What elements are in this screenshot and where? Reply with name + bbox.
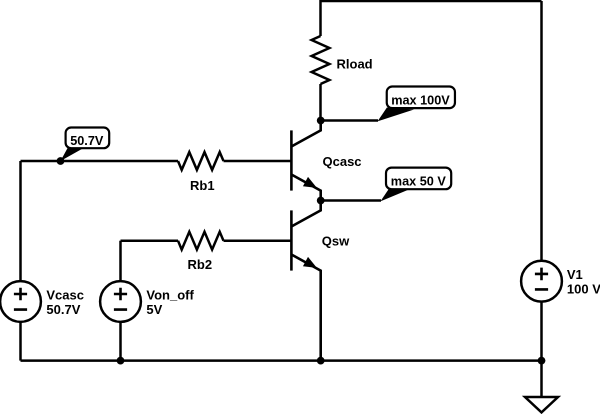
wire Rb1 right lead to Qcasc base — [224, 160, 291, 163]
svg-text:Rb2: Rb2 — [188, 257, 213, 272]
node Qsw emitter at bottom rail (junction dot) — [317, 357, 325, 365]
callout 50.7V — [61, 128, 110, 162]
resistor Rb2 — [178, 232, 224, 250]
svg-text:Von_off: Von_off — [146, 288, 194, 303]
svg-text:100 V: 100 V — [567, 281, 600, 296]
wire Von_off bottom lead — [119, 322, 122, 361]
wire top rail — [321, 1, 542, 36]
node Von_off at bottom rail (junction dot) — [117, 357, 125, 365]
wire Rb1 left lead — [21, 160, 179, 163]
node emitter Qcasc / collector Qsw (junction dot) — [317, 197, 325, 205]
resistor Rload — [312, 36, 330, 84]
svg-text:max 100V: max 100V — [391, 93, 450, 107]
transistor Qsw emitter arrow — [304, 258, 316, 267]
voltage source V1 — [521, 261, 562, 302]
wire V1 bottom lead — [540, 302, 543, 361]
wire bottom rail — [21, 359, 542, 362]
svg-text:Rb1: Rb1 — [190, 178, 215, 193]
svg-text:50.7V: 50.7V — [70, 134, 104, 148]
voltage source Von_off — [100, 281, 141, 322]
svg-text:V1: V1 — [567, 267, 583, 282]
callout max 100V — [321, 87, 455, 122]
svg-text:Qcasc: Qcasc — [323, 154, 362, 169]
svg-text:Qsw: Qsw — [322, 233, 350, 248]
svg-text:50.7V: 50.7V — [46, 302, 80, 317]
svg-text:5V: 5V — [146, 302, 162, 317]
transistor Qcasc — [291, 121, 320, 201]
wire Von_off top lead — [119, 241, 122, 282]
wire ground lead — [540, 361, 543, 397]
callout max 50 V — [321, 168, 452, 202]
node collector Qcasc (junction dot) — [317, 117, 325, 125]
transistor Qcasc emitter arrow — [304, 178, 316, 187]
node V1 at bottom rail (junction dot) — [538, 357, 546, 365]
ground — [525, 397, 558, 412]
wire Rload bottom to collector node — [319, 84, 322, 121]
resistor Rb1 — [178, 152, 224, 170]
node 50.7V probe (junction dot) — [57, 157, 65, 165]
wire Vcasc bottom lead — [19, 322, 22, 361]
wire Rb2 right lead to Qsw base — [224, 239, 291, 242]
wire Rb2 left lead — [121, 239, 179, 242]
transistor Qsw — [291, 201, 320, 361]
voltage source Vcasc — [0, 281, 41, 322]
wire left rail (Rb1 row to Vcasc) — [19, 161, 22, 281]
svg-text:Rload: Rload — [337, 56, 373, 71]
svg-text:max 50 V: max 50 V — [391, 174, 447, 188]
wire right rail (top rail to V1) — [540, 1, 543, 261]
svg-text:Vcasc: Vcasc — [46, 288, 84, 303]
